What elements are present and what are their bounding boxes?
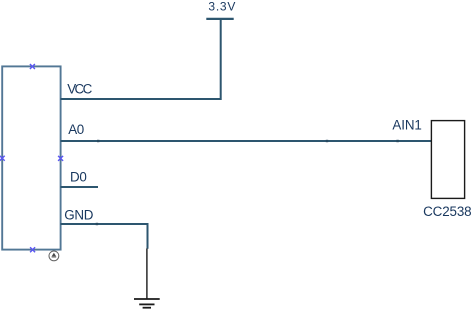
connection point left [0, 156, 5, 161]
svg-text:AIN1: AIN1 [392, 118, 421, 133]
junction on A0 wire [97, 140, 99, 142]
junction on A0 wire [326, 140, 328, 142]
junction on A0 wire [396, 140, 398, 142]
connection point top [30, 64, 35, 69]
module body U1 (sensor module outline) [2, 66, 60, 249]
svg-text:3.3V: 3.3V [208, 0, 236, 14]
svg-text:CC2538: CC2538 [423, 204, 471, 219]
IC CC2538 box [431, 121, 464, 199]
connection point right [58, 156, 63, 161]
svg-text:D0: D0 [70, 169, 87, 184]
wire D0 pin stub [61, 186, 99, 188]
wire A0 net to AIN1 [61, 140, 432, 142]
svg-text:A0: A0 [68, 122, 84, 137]
wire GND pin to ground [61, 224, 148, 249]
power symbol 3.3V bar [206, 18, 233, 20]
junction on GND wire [96, 223, 98, 225]
connection point bottom [30, 247, 35, 252]
anchor marker (circled triangle) [49, 251, 59, 261]
ground [134, 249, 160, 308]
svg-text:VCC: VCC [67, 81, 92, 96]
wire VCC pin to 3.3V [61, 20, 221, 99]
svg-text:GND: GND [64, 207, 94, 222]
